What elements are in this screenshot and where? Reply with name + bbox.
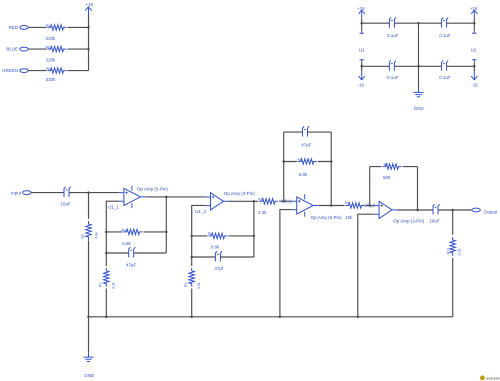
svg-text:R4: R4 (122, 228, 126, 232)
svg-text:R6: R6 (208, 232, 212, 236)
svg-text:6.8k: 6.8k (299, 172, 308, 177)
svg-text:Op Amp (3-Pin): Op Amp (3-Pin) (393, 219, 425, 224)
svg-text:3.3k: 3.3k (197, 282, 201, 289)
svg-text:everycircuit: everycircuit (486, 377, 500, 381)
svg-text:+16: +16 (357, 6, 365, 11)
svg-text:Input: Input (11, 190, 22, 195)
svg-text:10uF: 10uF (429, 219, 440, 224)
svg-text:220k: 220k (46, 36, 57, 41)
svg-text:0.1uF: 0.1uF (387, 75, 399, 80)
svg-text:6.8k: 6.8k (122, 241, 131, 246)
svg-text:BLUE: BLUE (6, 47, 18, 52)
svg-text:U1_2: U1_2 (195, 209, 206, 214)
svg-text:47pF: 47pF (301, 143, 312, 148)
svg-text:R5: R5 (298, 158, 302, 162)
svg-text:0.1uF: 0.1uF (439, 75, 451, 80)
svg-text:3.3k: 3.3k (111, 282, 115, 289)
svg-text:3.3k: 3.3k (258, 210, 267, 215)
svg-text:0.1uF: 0.1uF (439, 33, 451, 38)
svg-text:0.1uF: 0.1uF (387, 33, 399, 38)
svg-text:-16: -16 (471, 82, 478, 87)
svg-text:R6: R6 (46, 67, 50, 71)
svg-text:Output: Output (484, 209, 498, 214)
svg-text:R10: R10 (447, 248, 451, 254)
svg-text:R8: R8 (384, 163, 388, 167)
svg-text:R9: R9 (345, 201, 349, 205)
svg-text:R4: R4 (46, 24, 50, 28)
svg-text:680: 680 (383, 175, 391, 180)
svg-text:100k: 100k (457, 248, 461, 256)
svg-text:Op Amp (5-Pin): Op Amp (5-Pin) (137, 187, 169, 192)
svg-text:GND: GND (414, 106, 425, 111)
svg-text:GREEN: GREEN (2, 68, 18, 73)
svg-text:+16: +16 (470, 6, 478, 11)
svg-text:U2_1: U2_1 (281, 198, 292, 203)
svg-text:Op Amp (5-Pin): Op Amp (5-Pin) (311, 215, 343, 220)
svg-text:+16: +16 (85, 2, 93, 7)
svg-text:47pF: 47pF (126, 262, 137, 267)
svg-text:6.8k: 6.8k (94, 232, 98, 239)
svg-text:330k: 330k (46, 77, 57, 82)
svg-text:RED: RED (9, 25, 19, 30)
svg-text:-16: -16 (358, 82, 365, 87)
svg-text:R7: R7 (258, 198, 262, 202)
svg-text:10uF: 10uF (61, 201, 72, 206)
svg-text:Op Amp (3-Pin): Op Amp (3-Pin) (224, 191, 256, 196)
svg-text:R5: R5 (46, 46, 50, 50)
svg-text:U1_1: U1_1 (108, 205, 119, 210)
svg-text:R3: R3 (184, 283, 188, 287)
svg-text:220k: 220k (46, 57, 57, 62)
svg-text:6.8k: 6.8k (211, 245, 220, 250)
svg-text:R1: R1 (99, 283, 103, 287)
svg-text:10k: 10k (345, 215, 353, 220)
svg-text:R2: R2 (81, 234, 85, 238)
svg-text:U1: U1 (359, 47, 365, 52)
svg-text:U2_2: U2_2 (364, 203, 375, 208)
svg-text:U2: U2 (471, 47, 477, 52)
svg-text:47pf: 47pf (214, 266, 224, 271)
svg-text:GND: GND (84, 373, 95, 378)
